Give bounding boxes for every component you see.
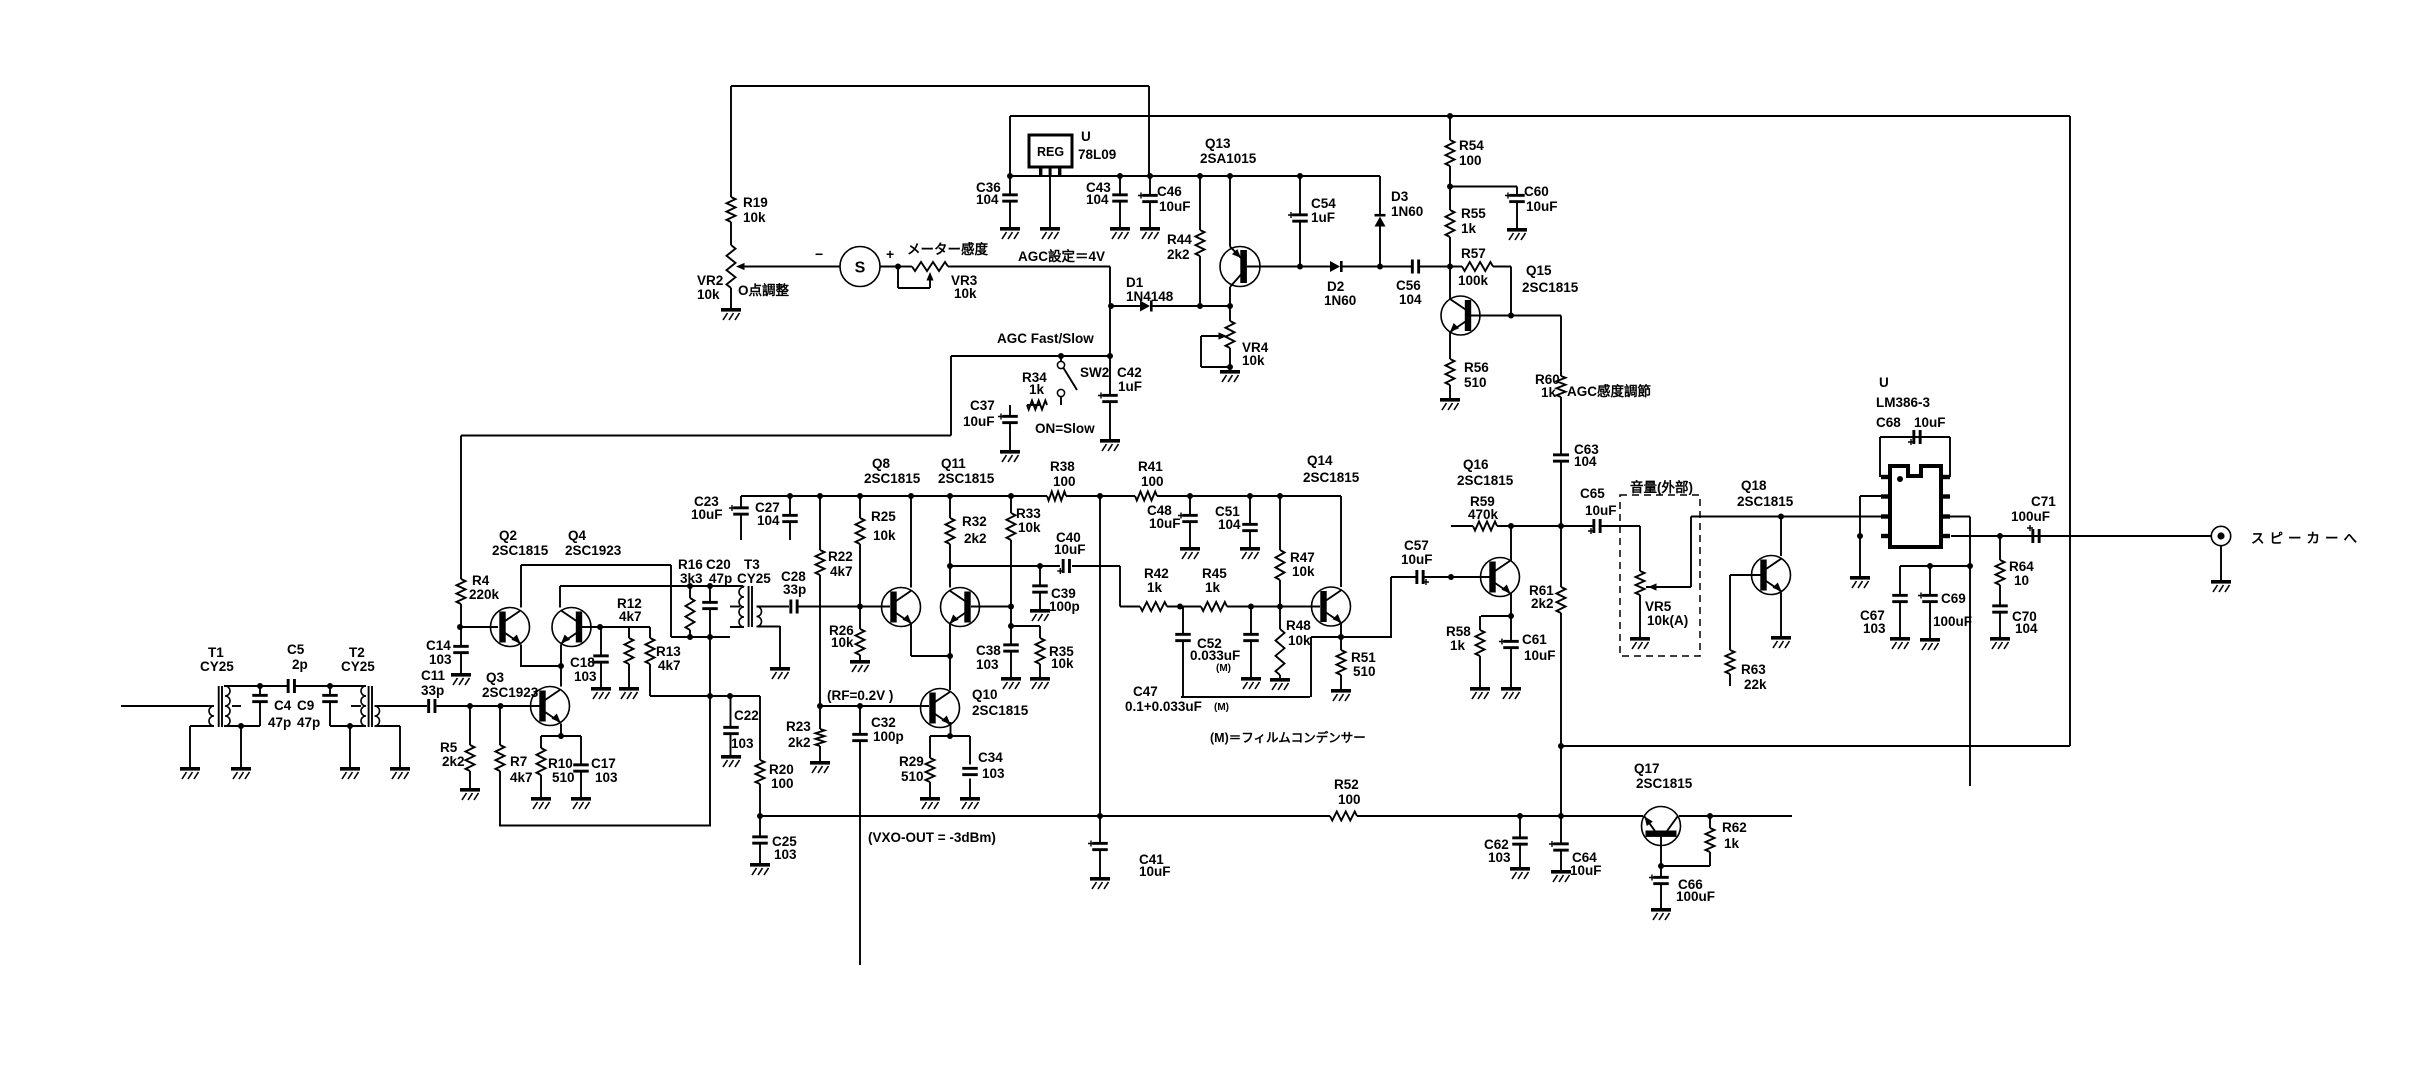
svg-text:10uF: 10uF	[1054, 542, 1086, 557]
svg-text:D3: D3	[1391, 189, 1409, 204]
svg-text:R52: R52	[1334, 777, 1359, 792]
svg-text:R56: R56	[1464, 360, 1489, 375]
svg-text:Q13: Q13	[1205, 136, 1231, 151]
svg-text:78L09: 78L09	[1078, 147, 1116, 162]
svg-text:1uF: 1uF	[1118, 379, 1142, 394]
svg-text:C17: C17	[591, 756, 616, 771]
svg-text:(M)＝フィルムコンデンサー: (M)＝フィルムコンデンサー	[1210, 730, 1366, 745]
svg-text:2SC1815: 2SC1815	[1303, 470, 1360, 485]
svg-text:10uF: 10uF	[1139, 864, 1171, 879]
svg-text:100p: 100p	[1049, 599, 1080, 614]
svg-text:470k: 470k	[1468, 507, 1499, 522]
svg-text:510: 510	[901, 769, 924, 784]
svg-text:T1: T1	[208, 645, 224, 660]
svg-text:1k: 1k	[1461, 221, 1477, 236]
svg-text:103: 103	[1488, 850, 1511, 865]
svg-text:10uF: 10uF	[1524, 648, 1556, 663]
svg-text:2p: 2p	[292, 657, 308, 672]
svg-text:S: S	[855, 260, 866, 277]
svg-text:10uF: 10uF	[1401, 552, 1433, 567]
svg-text:100: 100	[1459, 153, 1482, 168]
svg-text:10k: 10k	[873, 528, 896, 543]
svg-text:2k2: 2k2	[1167, 247, 1190, 262]
svg-text:ON=Slow: ON=Slow	[1035, 421, 1095, 436]
svg-text:100k: 100k	[1458, 273, 1489, 288]
svg-text:33p: 33p	[783, 582, 806, 597]
svg-text:+: +	[886, 246, 894, 262]
svg-text:104: 104	[757, 513, 780, 528]
svg-text:R19: R19	[743, 195, 768, 210]
svg-text:10k: 10k	[1292, 564, 1315, 579]
svg-text:104: 104	[1574, 454, 1597, 469]
svg-text:C9: C9	[297, 698, 314, 713]
svg-text:100p: 100p	[873, 729, 904, 744]
svg-text:33p: 33p	[421, 683, 444, 698]
svg-text:(RF=0.2V ): (RF=0.2V )	[827, 688, 893, 703]
svg-text:U: U	[1879, 375, 1889, 390]
svg-text:104: 104	[2015, 621, 2038, 636]
svg-text:R64: R64	[2009, 559, 2034, 574]
svg-text:103: 103	[429, 652, 452, 667]
svg-text:CY25: CY25	[737, 571, 771, 586]
svg-text:103: 103	[976, 657, 999, 672]
svg-text:C60: C60	[1524, 184, 1549, 199]
svg-text:10k: 10k	[1288, 633, 1311, 648]
svg-text:C38: C38	[976, 643, 1001, 658]
svg-text:100: 100	[1053, 474, 1076, 489]
svg-text:10uF: 10uF	[1526, 199, 1558, 214]
svg-text:R20: R20	[769, 762, 794, 777]
svg-text:R10: R10	[548, 756, 573, 771]
svg-text:R62: R62	[1722, 820, 1747, 835]
svg-text:R45: R45	[1202, 566, 1227, 581]
svg-text:R4: R4	[472, 573, 490, 588]
svg-text:10k: 10k	[1051, 656, 1074, 671]
svg-text:4k7: 4k7	[830, 564, 853, 579]
svg-text:C5: C5	[287, 642, 305, 657]
svg-text:C34: C34	[978, 750, 1003, 765]
svg-text:10uF: 10uF	[1159, 199, 1191, 214]
svg-text:220k: 220k	[469, 587, 500, 602]
svg-text:1N4148: 1N4148	[1126, 289, 1174, 304]
svg-text:100: 100	[1338, 792, 1361, 807]
svg-text:Q17: Q17	[1634, 761, 1660, 776]
svg-text:D1: D1	[1126, 275, 1144, 290]
svg-text:D2: D2	[1327, 279, 1344, 294]
svg-text:R7: R7	[510, 754, 527, 769]
svg-text:C68: C68	[1876, 415, 1901, 430]
svg-text:R25: R25	[871, 509, 896, 524]
svg-text:510: 510	[552, 770, 575, 785]
svg-text:100: 100	[1141, 474, 1164, 489]
svg-text:VR5: VR5	[1645, 599, 1672, 614]
svg-text:C14: C14	[426, 638, 451, 653]
svg-text:(M): (M)	[1214, 702, 1229, 713]
svg-text:10k: 10k	[743, 210, 766, 225]
svg-text:2k2: 2k2	[1531, 596, 1554, 611]
svg-text:103: 103	[982, 766, 1005, 781]
svg-text:R47: R47	[1290, 550, 1315, 565]
svg-text:Q10: Q10	[972, 687, 998, 702]
svg-text:R55: R55	[1461, 206, 1486, 221]
svg-text:10uF: 10uF	[691, 507, 723, 522]
svg-text:Q4: Q4	[568, 528, 587, 543]
svg-text:Q15: Q15	[1526, 263, 1552, 278]
svg-text:10k: 10k	[1018, 520, 1041, 535]
svg-text:C46: C46	[1157, 184, 1182, 199]
svg-text:103: 103	[731, 736, 754, 751]
svg-text:Q14: Q14	[1307, 453, 1333, 468]
svg-text:Q2: Q2	[499, 528, 517, 543]
svg-text:CY25: CY25	[341, 659, 375, 674]
svg-text:2k2: 2k2	[964, 531, 987, 546]
svg-text:103: 103	[574, 669, 597, 684]
svg-text:AGC Fast/Slow: AGC Fast/Slow	[997, 331, 1094, 346]
svg-text:510: 510	[1353, 664, 1376, 679]
svg-text:10: 10	[2014, 573, 2029, 588]
svg-text:C65: C65	[1580, 486, 1605, 501]
svg-text:AGC感度調節: AGC感度調節	[1567, 383, 1651, 399]
svg-text:U: U	[1081, 129, 1091, 144]
svg-text:100: 100	[771, 776, 794, 791]
svg-text:R33: R33	[1016, 506, 1041, 521]
svg-text:R41: R41	[1138, 459, 1163, 474]
svg-text:0.1+0.033uF: 0.1+0.033uF	[1125, 699, 1202, 714]
svg-text:C57: C57	[1404, 538, 1429, 553]
svg-text:2SA1015: 2SA1015	[1200, 151, 1257, 166]
svg-text:104: 104	[1086, 192, 1109, 207]
svg-text:R13: R13	[656, 644, 681, 659]
svg-text:R23: R23	[786, 719, 811, 734]
svg-text:10k(A): 10k(A)	[1647, 613, 1688, 628]
svg-text:R22: R22	[828, 549, 853, 564]
svg-text:スピーカーへ: スピーカーへ	[2251, 531, 2362, 546]
svg-text:R38: R38	[1050, 459, 1075, 474]
svg-text:C47: C47	[1133, 684, 1158, 699]
svg-text:10uF: 10uF	[963, 414, 995, 429]
svg-text:C69: C69	[1941, 591, 1966, 606]
svg-text:1k: 1k	[1205, 580, 1221, 595]
svg-text:C42: C42	[1117, 365, 1142, 380]
svg-text:Q18: Q18	[1741, 478, 1767, 493]
svg-text:2SC1815: 2SC1815	[972, 703, 1029, 718]
svg-text:R51: R51	[1351, 650, 1376, 665]
svg-text:10uF: 10uF	[1585, 503, 1617, 518]
svg-text:10uF: 10uF	[1570, 863, 1602, 878]
svg-text:C4: C4	[274, 698, 292, 713]
svg-text:10k: 10k	[697, 287, 720, 302]
svg-text:C37: C37	[970, 398, 995, 413]
svg-text:103: 103	[1863, 621, 1886, 636]
svg-text:R16: R16	[678, 557, 703, 572]
svg-text:2SC1815: 2SC1815	[864, 471, 921, 486]
svg-text:104: 104	[1399, 292, 1422, 307]
svg-text:C54: C54	[1311, 196, 1336, 211]
svg-text:R48: R48	[1286, 618, 1311, 633]
svg-text:R29: R29	[899, 754, 924, 769]
svg-text:R54: R54	[1459, 138, 1484, 153]
svg-text:Q3: Q3	[486, 670, 505, 685]
svg-text:C11: C11	[421, 668, 446, 683]
svg-text:R63: R63	[1741, 662, 1766, 677]
svg-text:C18: C18	[570, 655, 595, 670]
svg-text:10uF: 10uF	[1149, 516, 1181, 531]
svg-text:C22: C22	[734, 708, 759, 723]
svg-text:2k2: 2k2	[442, 754, 465, 769]
svg-text:10k: 10k	[1242, 353, 1265, 368]
svg-text:2SC1923: 2SC1923	[482, 685, 539, 700]
svg-text:2SC1815: 2SC1815	[1636, 776, 1693, 791]
svg-text:100uF: 100uF	[2011, 509, 2050, 524]
svg-text:2SC1815: 2SC1815	[938, 471, 995, 486]
svg-text:4k7: 4k7	[658, 658, 681, 673]
svg-text:R5: R5	[440, 740, 458, 755]
svg-text:100uF: 100uF	[1933, 614, 1972, 629]
svg-text:10k: 10k	[954, 286, 977, 301]
svg-text:2k2: 2k2	[788, 735, 811, 750]
svg-text:1N60: 1N60	[1324, 293, 1356, 308]
svg-text:103: 103	[595, 770, 618, 785]
svg-text:47p: 47p	[268, 715, 291, 730]
svg-text:1k: 1k	[1724, 836, 1740, 851]
svg-text:メーター感度: メーター感度	[907, 241, 988, 257]
svg-text:T3: T3	[744, 557, 760, 572]
svg-text:47p: 47p	[297, 715, 320, 730]
svg-text:(VXO-OUT = -3dBm): (VXO-OUT = -3dBm)	[868, 830, 996, 845]
svg-text:1uF: 1uF	[1311, 210, 1335, 225]
svg-text:T2: T2	[349, 645, 365, 660]
svg-text:Q16: Q16	[1463, 457, 1489, 472]
svg-text:2SC1923: 2SC1923	[565, 543, 622, 558]
svg-text:10k: 10k	[831, 635, 854, 650]
svg-text:C32: C32	[871, 715, 896, 730]
svg-text:4k7: 4k7	[510, 770, 533, 785]
svg-text:SW2: SW2	[1080, 365, 1109, 380]
svg-text:2SC1815: 2SC1815	[1737, 494, 1794, 509]
svg-text:R58: R58	[1446, 624, 1471, 639]
svg-text:10uF: 10uF	[1914, 415, 1946, 430]
svg-text:O点調整: O点調整	[738, 282, 790, 298]
svg-text:104: 104	[976, 192, 999, 207]
svg-text:(M): (M)	[1216, 663, 1231, 674]
svg-text:R44: R44	[1167, 232, 1192, 247]
svg-text:C56: C56	[1396, 278, 1421, 293]
svg-text:47p: 47p	[709, 571, 732, 586]
svg-text:AGC設定＝4V: AGC設定＝4V	[1018, 248, 1105, 264]
svg-text:CY25: CY25	[200, 659, 234, 674]
svg-text:22k: 22k	[1744, 677, 1767, 692]
svg-text:4k7: 4k7	[619, 609, 642, 624]
svg-text:2SC1815: 2SC1815	[1457, 473, 1514, 488]
svg-text:0.033uF: 0.033uF	[1190, 648, 1240, 663]
svg-text:Q8: Q8	[872, 456, 891, 471]
svg-text:REG: REG	[1037, 145, 1064, 159]
svg-text:2SC1815: 2SC1815	[492, 543, 549, 558]
svg-text:2SC1815: 2SC1815	[1522, 280, 1579, 295]
svg-text:VR2: VR2	[697, 273, 723, 288]
svg-text:R57: R57	[1461, 246, 1486, 261]
svg-text:100uF: 100uF	[1676, 889, 1715, 904]
svg-text:音量(外部): 音量(外部)	[1630, 479, 1693, 495]
svg-text:103: 103	[774, 847, 797, 862]
svg-text:1N60: 1N60	[1391, 204, 1423, 219]
svg-text:C71: C71	[2031, 494, 2056, 509]
svg-text:1k: 1k	[1541, 385, 1557, 400]
svg-text:LM386-3: LM386-3	[1876, 395, 1931, 410]
svg-text:1k: 1k	[1147, 580, 1163, 595]
svg-text:510: 510	[1464, 375, 1487, 390]
svg-text:C20: C20	[706, 557, 731, 572]
svg-text:Q11: Q11	[941, 456, 966, 471]
svg-text:104: 104	[1218, 517, 1241, 532]
svg-text:1k: 1k	[1450, 638, 1466, 653]
svg-text:1k: 1k	[1029, 382, 1045, 397]
svg-text:−: −	[815, 246, 823, 262]
svg-text:C61: C61	[1522, 632, 1547, 647]
svg-text:R32: R32	[962, 514, 987, 529]
svg-text:R42: R42	[1144, 566, 1169, 581]
